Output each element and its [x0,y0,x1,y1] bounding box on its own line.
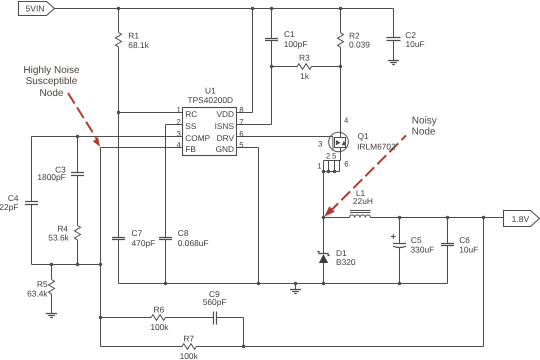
svg-text:U1: U1 [205,86,216,96]
svg-text:330uF: 330uF [411,245,435,255]
svg-text:7: 7 [239,117,243,126]
svg-text:B320: B320 [336,257,356,267]
svg-text:2: 2 [326,152,330,161]
svg-text:C1: C1 [284,29,295,39]
svg-text:Susceptible: Susceptible [26,76,78,87]
svg-text:FB: FB [185,144,196,154]
svg-text:0.068uF: 0.068uF [178,238,209,248]
svg-text:0.039: 0.039 [349,39,370,49]
svg-text:3: 3 [176,129,180,138]
svg-text:6: 6 [344,160,348,169]
svg-text:4: 4 [176,140,181,149]
svg-text:22pF: 22pF [0,202,18,212]
svg-text:C7: C7 [132,228,143,238]
svg-text:53.6k: 53.6k [48,232,69,242]
svg-text:63.4k: 63.4k [27,288,48,298]
svg-text:470pF: 470pF [132,238,156,248]
svg-text:Node: Node [412,127,436,138]
svg-text:C5: C5 [411,235,422,245]
svg-text:GND: GND [216,144,234,154]
svg-text:560pF: 560pF [203,297,227,307]
svg-text:C6: C6 [459,235,470,245]
svg-text:8: 8 [239,105,243,114]
svg-text:R7: R7 [183,333,194,343]
svg-text:5VIN: 5VIN [26,4,45,14]
svg-text:VDD: VDD [216,109,234,119]
svg-text:10uF: 10uF [406,39,425,49]
svg-text:Node: Node [40,88,64,99]
svg-text:COMP: COMP [185,133,210,143]
svg-text:100k: 100k [180,351,199,360]
svg-text:ISNS: ISNS [215,121,235,131]
svg-text:10uF: 10uF [459,245,478,255]
svg-text:SS: SS [185,121,197,131]
svg-text:68.1k: 68.1k [128,40,149,50]
svg-text:1: 1 [317,161,321,170]
svg-text:DRV: DRV [217,133,235,143]
svg-text:1800pF: 1800pF [37,172,65,182]
svg-text:5: 5 [332,151,337,160]
svg-text:Noisy: Noisy [412,116,437,127]
svg-text:C8: C8 [178,228,189,238]
svg-text:5: 5 [239,140,244,149]
svg-text:R3: R3 [299,52,310,62]
svg-text:TPS40200D: TPS40200D [187,95,233,105]
svg-text:R1: R1 [128,31,139,41]
svg-text:R6: R6 [154,304,165,314]
svg-text:Q1: Q1 [358,131,370,141]
svg-text:1: 1 [176,105,180,114]
svg-text:2: 2 [176,117,180,126]
svg-text:IRLM6702: IRLM6702 [357,141,396,151]
svg-text:22uH: 22uH [353,196,373,206]
svg-text:100k: 100k [150,322,169,332]
svg-text:1k: 1k [300,71,310,81]
svg-text:100pF: 100pF [284,39,308,49]
svg-text:6: 6 [239,129,243,138]
svg-text:4: 4 [344,116,349,125]
svg-text:RC: RC [185,109,197,119]
svg-text:3: 3 [318,139,322,148]
svg-text:1.8V: 1.8V [512,214,530,224]
svg-text:Highly Noise: Highly Noise [23,65,80,76]
